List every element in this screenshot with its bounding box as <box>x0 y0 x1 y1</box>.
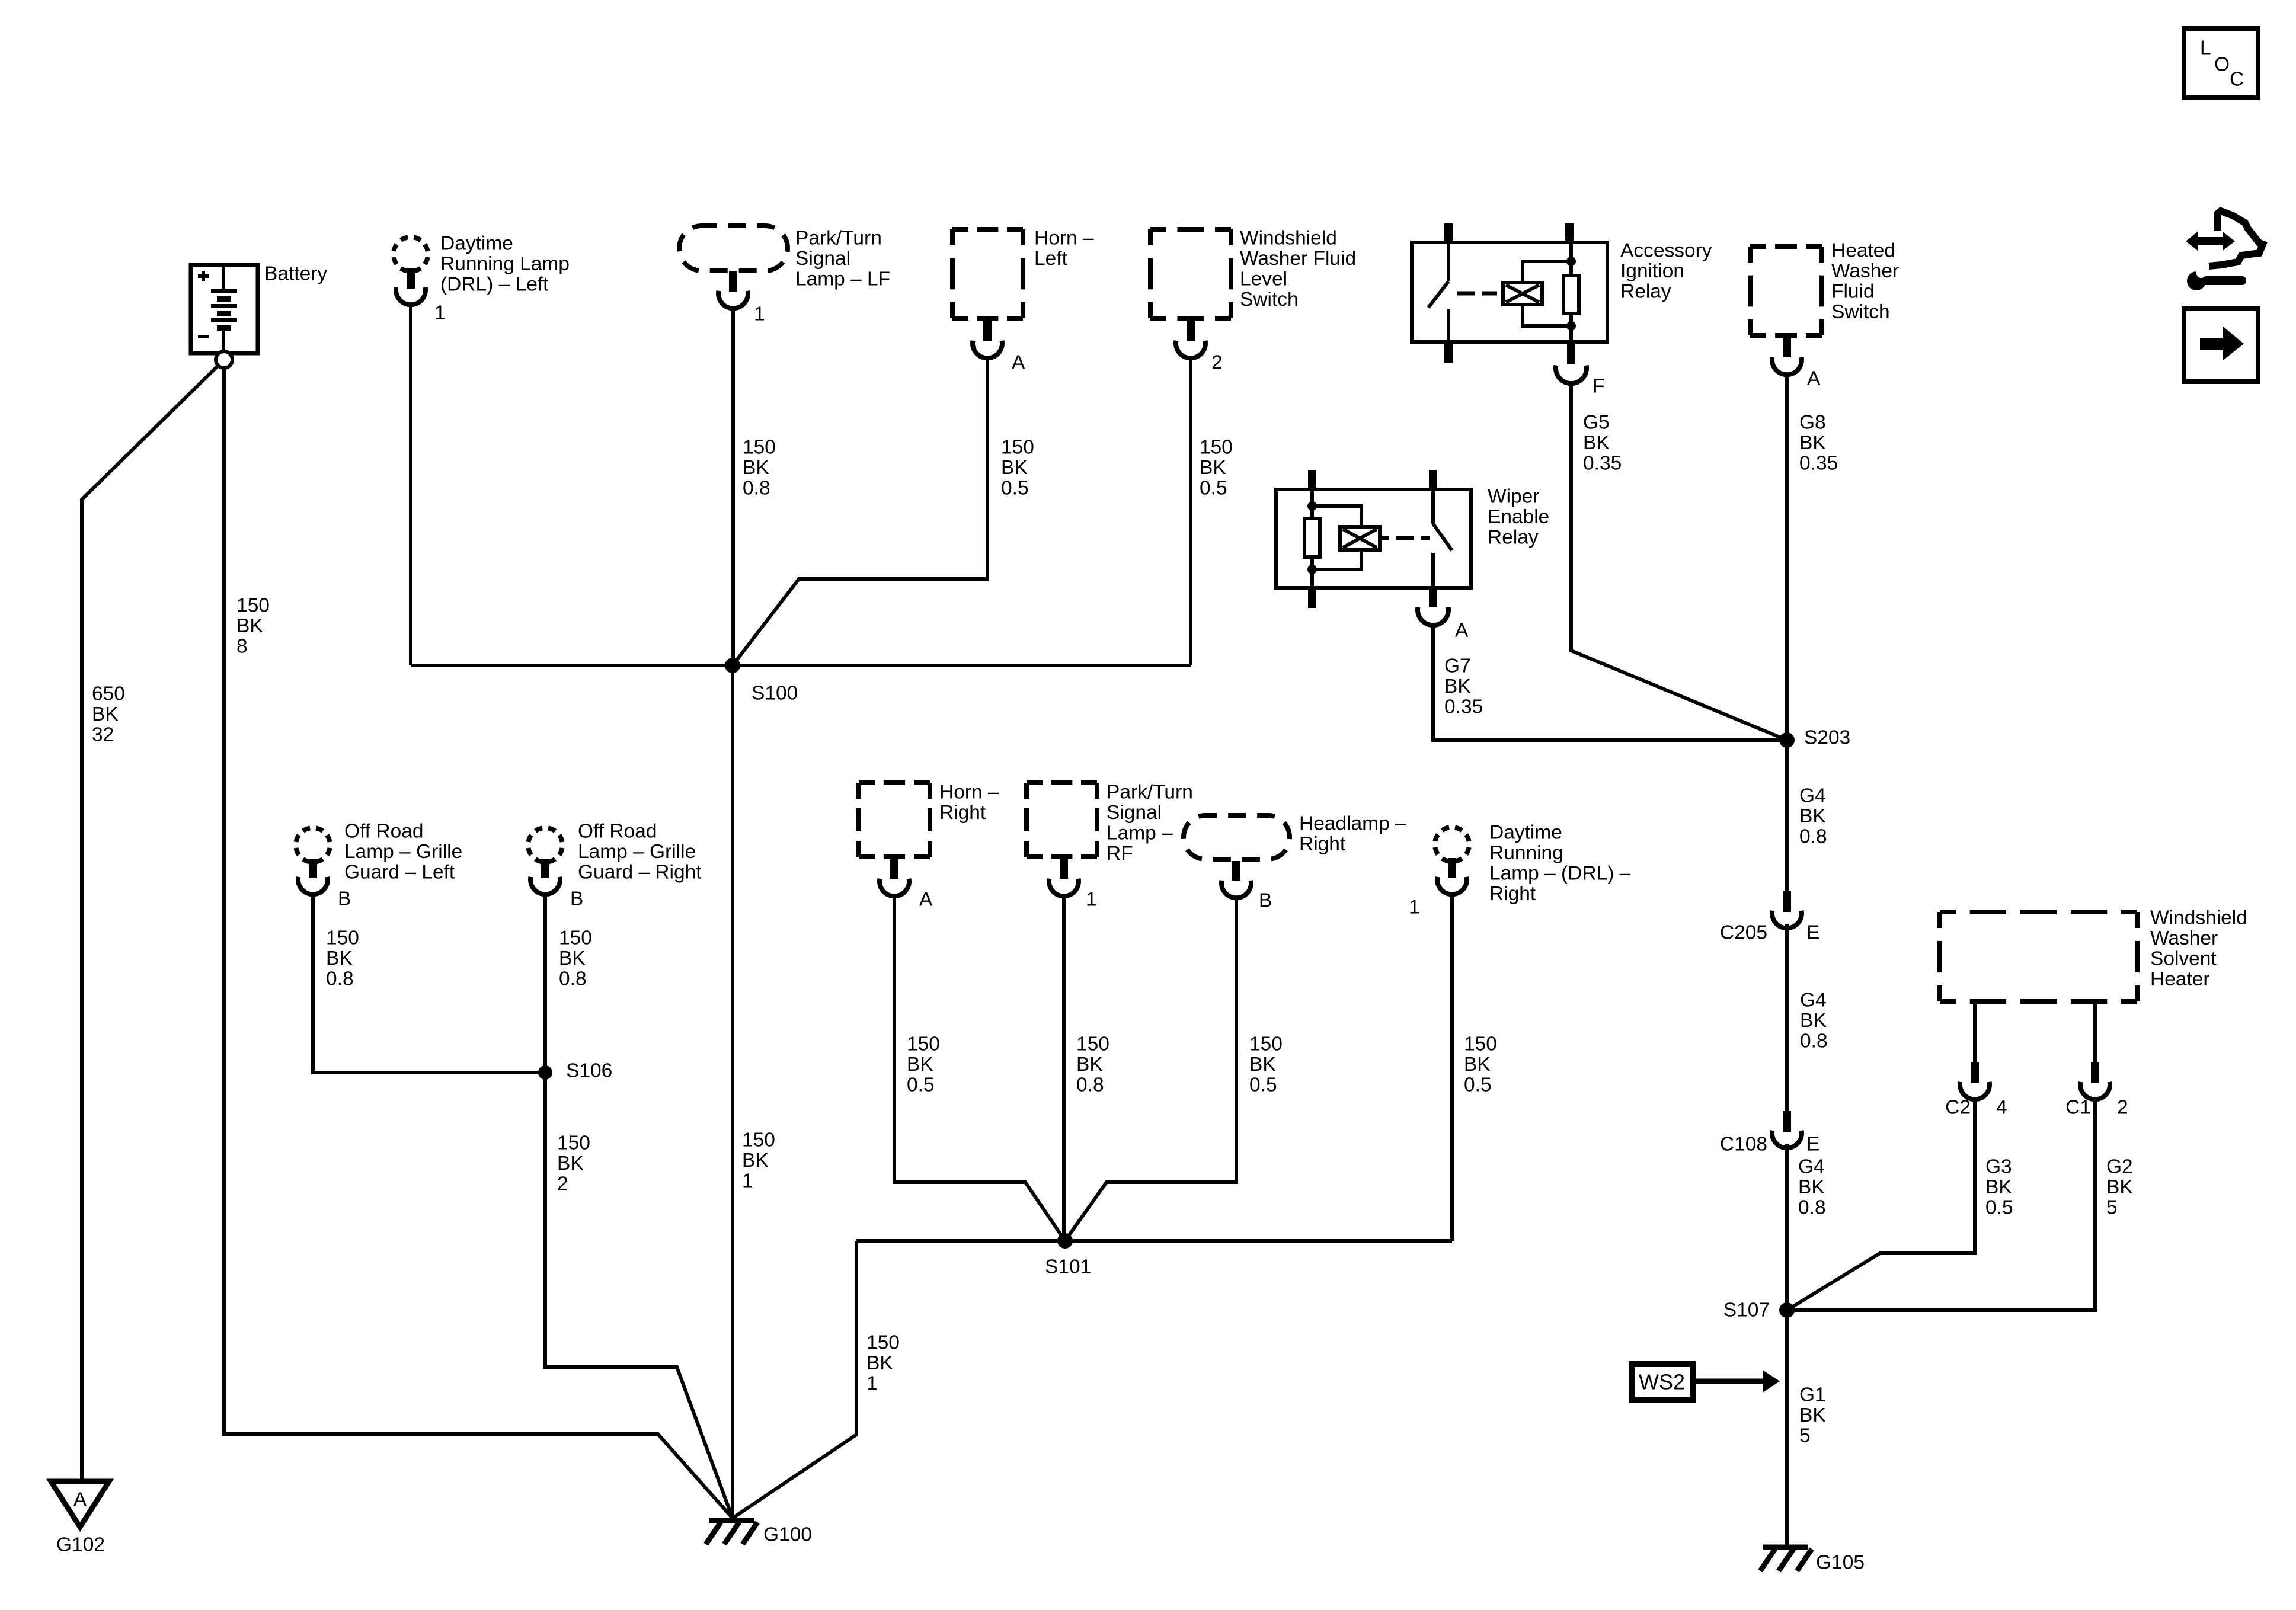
svg-text:BK: BK <box>326 948 353 969</box>
svg-text:C108: C108 <box>1720 1134 1767 1156</box>
svg-text:Daytime: Daytime <box>1489 822 1562 844</box>
svg-text:Solvent: Solvent <box>2150 948 2217 970</box>
svg-text:5: 5 <box>2106 1197 2118 1219</box>
svg-text:G8: G8 <box>1799 412 1826 434</box>
svg-text:BK: BK <box>743 457 769 479</box>
svg-text:S107: S107 <box>1723 1299 1770 1321</box>
svg-text:BK: BK <box>1800 1010 1827 1032</box>
svg-text:Battery: Battery <box>264 263 327 285</box>
svg-text:Right: Right <box>1489 883 1536 905</box>
svg-text:2: 2 <box>557 1173 568 1195</box>
svg-text:Windshield: Windshield <box>1240 228 1337 249</box>
svg-text:Lamp – (DRL) –: Lamp – (DRL) – <box>1489 863 1631 885</box>
svg-text:650: 650 <box>92 683 125 705</box>
svg-text:0.35: 0.35 <box>1799 453 1838 475</box>
svg-text:0.8: 0.8 <box>1798 1197 1826 1219</box>
svg-text:BK: BK <box>742 1150 769 1172</box>
svg-text:C1: C1 <box>2065 1097 2091 1119</box>
svg-text:1: 1 <box>742 1170 753 1192</box>
svg-text:Signal: Signal <box>795 248 850 270</box>
svg-text:150: 150 <box>236 595 270 617</box>
svg-text:4: 4 <box>1996 1097 2007 1119</box>
svg-text:0.5: 0.5 <box>1464 1074 1492 1096</box>
svg-text:1: 1 <box>754 303 765 325</box>
svg-text:0.8: 0.8 <box>743 478 770 500</box>
svg-text:Headlamp –: Headlamp – <box>1299 813 1406 835</box>
svg-text:Lamp –: Lamp – <box>1107 822 1173 844</box>
svg-text:C205: C205 <box>1720 922 1767 944</box>
svg-text:150: 150 <box>557 1132 590 1154</box>
svg-text:Switch: Switch <box>1240 289 1299 311</box>
svg-text:F: F <box>1593 376 1604 398</box>
svg-text:Running: Running <box>1489 842 1563 864</box>
svg-text:Off Road: Off Road <box>344 821 423 843</box>
svg-text:G102: G102 <box>56 1534 105 1556</box>
svg-text:Relay: Relay <box>1620 281 1671 303</box>
svg-text:150: 150 <box>1249 1033 1283 1055</box>
svg-text:BK: BK <box>866 1352 893 1374</box>
svg-text:B: B <box>338 888 351 910</box>
svg-text:Guard – Right: Guard – Right <box>578 862 702 884</box>
svg-text:Running Lamp: Running Lamp <box>440 253 570 275</box>
svg-text:G100: G100 <box>763 1524 812 1546</box>
svg-text:Windshield: Windshield <box>2150 907 2247 929</box>
svg-text:Horn –: Horn – <box>1034 228 1094 249</box>
svg-text:BK: BK <box>236 615 263 637</box>
svg-text:BK: BK <box>2106 1176 2133 1198</box>
svg-text:RF: RF <box>1107 843 1133 865</box>
svg-text:150: 150 <box>1076 1033 1109 1055</box>
svg-text:A: A <box>1455 620 1469 642</box>
svg-text:150: 150 <box>559 927 592 949</box>
svg-text:Right: Right <box>1299 833 1346 855</box>
svg-text:150: 150 <box>866 1332 900 1354</box>
svg-text:150: 150 <box>1200 437 1233 459</box>
svg-text:0.5: 0.5 <box>907 1074 935 1096</box>
svg-text:2: 2 <box>2117 1097 2128 1119</box>
svg-text:Relay: Relay <box>1488 527 1539 549</box>
svg-text:G4: G4 <box>1799 785 1826 807</box>
svg-text:0.8: 0.8 <box>1076 1074 1104 1096</box>
svg-text:Washer: Washer <box>1831 260 1899 282</box>
svg-text:0.5: 0.5 <box>1985 1197 2013 1219</box>
svg-text:BK: BK <box>1583 432 1610 454</box>
svg-text:BK: BK <box>1444 676 1471 697</box>
svg-text:BK: BK <box>559 948 586 969</box>
svg-text:Enable: Enable <box>1488 506 1549 528</box>
svg-text:Ignition: Ignition <box>1620 260 1684 282</box>
svg-text:S101: S101 <box>1045 1256 1091 1278</box>
svg-text:Lamp – LF: Lamp – LF <box>795 268 890 290</box>
svg-text:BK: BK <box>557 1153 584 1174</box>
svg-text:(DRL) – Left: (DRL) – Left <box>440 274 549 296</box>
svg-text:Signal: Signal <box>1107 802 1162 824</box>
svg-text:32: 32 <box>92 724 114 746</box>
svg-text:0.8: 0.8 <box>326 968 354 990</box>
svg-text:E: E <box>1806 1134 1819 1156</box>
svg-text:G2: G2 <box>2106 1156 2133 1178</box>
svg-text:150: 150 <box>743 437 776 459</box>
svg-text:Washer: Washer <box>2150 927 2218 949</box>
svg-text:G1: G1 <box>1799 1384 1826 1406</box>
svg-text:Lamp – Grille: Lamp – Grille <box>578 841 696 863</box>
svg-text:Right: Right <box>939 802 986 824</box>
svg-text:0.5: 0.5 <box>1249 1074 1277 1096</box>
svg-text:G4: G4 <box>1798 1156 1825 1178</box>
svg-text:0.35: 0.35 <box>1444 696 1483 718</box>
svg-text:G5: G5 <box>1583 412 1610 434</box>
svg-text:1: 1 <box>434 302 446 324</box>
svg-text:150: 150 <box>907 1033 940 1055</box>
svg-text:O: O <box>2214 54 2230 76</box>
svg-text:A: A <box>919 889 933 911</box>
svg-text:BK: BK <box>1799 1404 1826 1426</box>
svg-text:150: 150 <box>1464 1033 1497 1055</box>
svg-text:E: E <box>1806 922 1819 944</box>
svg-text:BK: BK <box>1464 1054 1491 1076</box>
svg-text:1: 1 <box>1409 897 1420 918</box>
svg-text:Wiper: Wiper <box>1488 486 1539 508</box>
svg-text:0.35: 0.35 <box>1583 453 1622 475</box>
svg-text:Fluid: Fluid <box>1831 281 1875 303</box>
svg-text:150: 150 <box>326 927 359 949</box>
svg-text:C2: C2 <box>1945 1097 1971 1119</box>
svg-text:Washer Fluid: Washer Fluid <box>1240 248 1356 270</box>
svg-text:BK: BK <box>1798 1176 1825 1198</box>
svg-text:S203: S203 <box>1804 727 1850 749</box>
svg-text:BK: BK <box>1799 805 1826 827</box>
svg-text:Level: Level <box>1240 268 1287 290</box>
svg-text:Park/Turn: Park/Turn <box>795 228 882 249</box>
svg-text:B: B <box>1259 890 1272 912</box>
svg-text:0.8: 0.8 <box>1800 1030 1828 1052</box>
svg-text:Heater: Heater <box>2150 968 2210 990</box>
svg-text:G3: G3 <box>1985 1156 2012 1178</box>
svg-text:Heated: Heated <box>1831 240 1895 262</box>
svg-text:Off Road: Off Road <box>578 821 657 843</box>
svg-text:C: C <box>2230 69 2244 91</box>
svg-text:0.8: 0.8 <box>559 968 587 990</box>
svg-text:A: A <box>73 1489 87 1511</box>
svg-text:Lamp – Grille: Lamp – Grille <box>344 841 462 863</box>
svg-text:WS2: WS2 <box>1639 1370 1685 1394</box>
svg-text:1: 1 <box>866 1373 878 1395</box>
svg-text:Daytime: Daytime <box>440 233 513 255</box>
svg-text:0.5: 0.5 <box>1200 478 1227 500</box>
svg-text:BK: BK <box>92 703 119 725</box>
svg-text:A: A <box>1012 352 1025 374</box>
svg-text:BK: BK <box>907 1054 933 1076</box>
svg-text:Horn –: Horn – <box>939 782 999 804</box>
svg-text:Left: Left <box>1034 248 1068 270</box>
svg-text:G7: G7 <box>1444 655 1471 677</box>
svg-text:150: 150 <box>742 1129 775 1151</box>
svg-text:G105: G105 <box>1816 1552 1865 1574</box>
svg-text:S106: S106 <box>566 1060 612 1082</box>
svg-text:Guard – Left: Guard – Left <box>344 862 455 884</box>
svg-text:BK: BK <box>1799 432 1826 454</box>
svg-text:B: B <box>570 888 583 910</box>
svg-text:2: 2 <box>1211 352 1223 374</box>
svg-text:150: 150 <box>1001 437 1034 459</box>
svg-text:Park/Turn: Park/Turn <box>1107 782 1193 804</box>
svg-text:Accessory: Accessory <box>1620 240 1712 262</box>
svg-text:8: 8 <box>236 636 248 658</box>
svg-text:5: 5 <box>1799 1425 1811 1447</box>
svg-text:0.5: 0.5 <box>1001 478 1029 500</box>
svg-text:1: 1 <box>1086 889 1097 911</box>
svg-text:BK: BK <box>1200 457 1226 479</box>
svg-text:BK: BK <box>1249 1054 1276 1076</box>
svg-text:S100: S100 <box>752 683 798 705</box>
svg-text:0.8: 0.8 <box>1799 826 1827 848</box>
svg-text:BK: BK <box>1001 457 1028 479</box>
svg-text:L: L <box>2200 37 2211 59</box>
svg-text:G4: G4 <box>1800 990 1827 1012</box>
svg-text:BK: BK <box>1985 1176 2012 1198</box>
svg-text:Switch: Switch <box>1831 301 1890 323</box>
svg-text:BK: BK <box>1076 1054 1103 1076</box>
svg-text:A: A <box>1807 368 1821 390</box>
